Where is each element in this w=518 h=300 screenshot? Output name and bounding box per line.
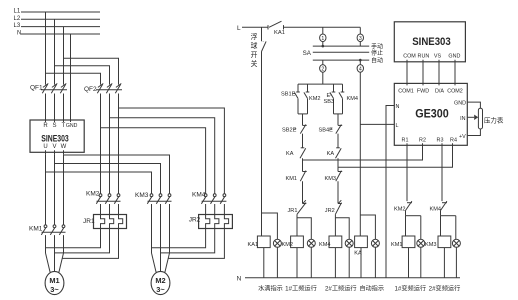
wire auto rail to lamp HL5 (360, 215, 375, 239)
svg-text:COM: COM (403, 53, 416, 59)
svg-text:1: 1 (321, 36, 324, 42)
svg-text:手动: 手动 (371, 43, 383, 51)
svg-text:压力表: 压力表 (484, 116, 504, 125)
contactor aux KM3 (interlock NC) (325, 171, 343, 182)
svg-text:3~: 3~ (50, 285, 59, 294)
svg-text:KM2: KM2 (86, 191, 100, 198)
svg-text:开: 开 (251, 51, 258, 59)
svg-text:2: 2 (321, 67, 324, 73)
wire JR1 out3 to M1 lead3 (62, 229, 118, 259)
wire QF2 pole3 down to KM2 pole3 (118, 95, 120, 194)
wire V branch to KM3 pole2 (55, 164, 161, 194)
wire KA1 coil to N (263, 248, 265, 278)
svg-text:SB1E: SB1E (281, 92, 296, 98)
svg-text:QF2: QF2 (84, 86, 97, 93)
wire COM to COM1 (406, 62, 408, 84)
svg-text:KM1: KM1 (391, 242, 403, 248)
svg-text:KM3: KM3 (325, 176, 337, 182)
wire L2 tap to QF2 pole 2 (55, 66, 110, 85)
svg-text:L: L (396, 123, 399, 129)
wire VS to D/A (438, 62, 440, 84)
wire KM3 coil to N (443, 248, 445, 278)
svg-text:M1: M1 (49, 276, 59, 285)
svg-text:SINE303: SINE303 (412, 36, 451, 48)
wire JR1 to KM2 coil and lamp (297, 214, 311, 239)
inverter U1 SINE303 (power section) (30, 118, 84, 154)
wire lamp HL5 to N (374, 247, 376, 277)
coil KM2 (282, 236, 304, 248)
pushbutton SB4 (stop NC) (319, 114, 343, 134)
coil KA (354, 236, 367, 257)
svg-text:SB3: SB3 (324, 99, 335, 105)
wire U branch to KM3 pole1 (46, 172, 152, 194)
svg-text:KA1: KA1 (248, 242, 259, 248)
wire GE300 L terminal to auto rail (360, 123, 394, 125)
wire GE300 N terminal to N rail (386, 106, 394, 278)
svg-text:SA: SA (303, 50, 312, 57)
thermal relay JR1 (heater elements) (83, 215, 127, 229)
svg-text:1#变频运行: 1#变频运行 (394, 284, 426, 292)
svg-text:+V: +V (459, 134, 466, 140)
contactor KM1 (main contacts) (29, 225, 66, 253)
svg-text:自动: 自动 (371, 57, 383, 65)
inverter control terminals U1 SINE303 (394, 22, 465, 64)
svg-text:SINE303: SINE303 (41, 134, 69, 144)
wire L2 drop to QF1 pole 2 (54, 19, 56, 84)
svg-text:IN: IN (460, 116, 465, 122)
coil KA1 (248, 236, 271, 248)
contactor aux KM2 (seal-in NO) (304, 84, 321, 114)
svg-text:GE300: GE300 (415, 109, 449, 121)
wire KM2 NC to KM1 coil and lamp (406, 216, 421, 240)
svg-text:COM2: COM2 (447, 88, 463, 94)
svg-text:N: N (396, 104, 400, 110)
relay contact KA (NO, left rung) (286, 134, 306, 159)
wire N rail (control) (245, 277, 460, 279)
pushbutton SB1 (start NO) (281, 84, 300, 114)
svg-text:停止: 停止 (371, 49, 383, 57)
svg-text:R: R (43, 123, 48, 129)
svg-text:W: W (61, 144, 67, 150)
svg-text:VS: VS (434, 53, 442, 59)
wire KA to KM3 interlock (337, 158, 339, 171)
contactor aux KM4 (seal-in NO) (339, 84, 358, 114)
wire L3 tap to QF2 pole 3 (64, 58, 119, 84)
wire W branch to KM3 pole3 (64, 155, 170, 194)
svg-text:KA1: KA1 (274, 30, 285, 36)
wire RUN to FWD (422, 62, 424, 84)
wire lamp HL1 to N (276, 247, 278, 277)
contactor aux KM1 (interlock NC) (286, 171, 307, 182)
wire SA-4 auto rail down to KA coil (359, 72, 361, 236)
lamp HL5 (auto indicator) (371, 239, 379, 247)
svg-text:1#工频运行: 1#工频运行 (285, 284, 317, 292)
thermal contact JR1 (NC) (288, 200, 307, 214)
svg-text:水满指示: 水满指示 (258, 284, 283, 292)
wire R4 link to right KA rung (338, 145, 453, 167)
relay contact KA (NO, right rung) (327, 134, 342, 159)
svg-text:2#变频运行: 2#变频运行 (429, 284, 461, 292)
svg-text:浮: 浮 (251, 32, 258, 41)
wire float rail to lamp HL1 (262, 213, 278, 239)
contactor KM4 (main contacts) (192, 192, 226, 215)
svg-text:R4: R4 (450, 137, 457, 143)
wire L2 rail (21, 18, 100, 20)
wire lamp HL2 to N (310, 247, 312, 277)
wire W output down to KM1 pole3 (63, 154, 65, 225)
svg-text:KA: KA (327, 151, 335, 157)
coil KM4 (319, 236, 342, 248)
svg-text:JR2: JR2 (189, 216, 201, 223)
svg-text:GND: GND (448, 53, 460, 59)
wire KM1 coil to N (408, 248, 410, 278)
svg-text:KA: KA (286, 151, 294, 157)
svg-text:R1: R1 (402, 137, 409, 143)
contactor aux KM4 (interlock NC, inverter rung) (430, 201, 448, 216)
svg-text:FWD: FWD (417, 88, 429, 94)
svg-text:KM4: KM4 (319, 242, 331, 248)
pressure sensor (remote gauge) (467, 102, 504, 135)
svg-text:KM1: KM1 (286, 176, 298, 182)
wire R3 down to KM4 interlock (441, 145, 443, 201)
wire KM3 to JR2 contact (337, 181, 339, 203)
wire R1 down to KM2 interlock (406, 145, 408, 201)
coil KM1 (391, 236, 415, 248)
svg-text:GND: GND (454, 100, 466, 106)
svg-text:L: L (237, 25, 241, 32)
wire L to KA1 contact (242, 26, 268, 28)
float switch (vertical text label) (251, 27, 266, 236)
wire KA coil to N (360, 248, 362, 278)
relay contact KA1 (knife) (268, 21, 285, 36)
svg-text:JR1: JR1 (288, 208, 298, 214)
wire R2 link to KA rungs (303, 145, 423, 160)
svg-text:KM1: KM1 (29, 226, 43, 233)
circuit breaker QF2 (84, 84, 122, 96)
svg-text:M2: M2 (155, 276, 165, 285)
svg-text:R2: R2 (419, 137, 426, 143)
wire manual tee (298, 83, 343, 85)
selector switch SA (303, 27, 383, 72)
contactor KM3 (main contacts) (135, 192, 172, 253)
wire KA1 to SA common (284, 26, 361, 28)
thermal relay JR2 (heater elements) (189, 215, 233, 229)
lamp HL6 (1# inverter run) (417, 239, 425, 247)
svg-text:KM4: KM4 (347, 96, 359, 102)
motor M1 (45, 253, 64, 295)
svg-text:D/A: D/A (435, 88, 444, 94)
svg-text:U: U (43, 144, 47, 150)
wire JR2 out2 to M2 lead2 (161, 229, 215, 253)
wire JR2 to KM4 coil and lamp (335, 214, 349, 239)
wire U output down to KM1 pole1 (45, 154, 47, 225)
svg-text:L3: L3 (14, 23, 21, 29)
svg-text:KM2: KM2 (282, 242, 294, 248)
wire lamp HL7 to N (455, 247, 457, 277)
wire JR1 out1 to M1 lead1 (46, 229, 101, 248)
wire SB3/KM4 rejoin (334, 114, 343, 123)
svg-text:COM1: COM1 (398, 88, 414, 94)
svg-text:JR2: JR2 (325, 208, 335, 214)
wire L3 drop to QF1 pole 3 (63, 27, 65, 85)
wire L1 rail (21, 11, 100, 13)
svg-text:KM2: KM2 (309, 96, 321, 102)
wire JR2 out1 to M2 lead1 (152, 229, 206, 248)
wire N rail (power) (21, 33, 100, 35)
wire GND to COM2 (454, 62, 456, 84)
svg-text:KM4: KM4 (192, 192, 206, 199)
lamp HL1 (water-full indicator) (273, 239, 281, 247)
svg-text:3: 3 (359, 36, 362, 42)
wire SB1/KM2 rejoin (298, 114, 308, 123)
svg-text:球: 球 (251, 41, 258, 50)
wire QF2 pole2 branch to KM4 pole2 (110, 118, 215, 194)
wire lamp HL4 to N (348, 247, 350, 277)
lamp HL2 (1# power-freq run) (307, 239, 315, 247)
pushbutton SB2 (stop NC) (282, 114, 307, 134)
svg-text:R3: R3 (437, 137, 444, 143)
svg-text:关: 关 (251, 59, 258, 68)
wire KM1 to JR1 contact (302, 181, 304, 203)
svg-text:V: V (52, 144, 56, 150)
contactor aux KM2 (interlock NC, inverter rung) (394, 201, 412, 216)
wire L1 tap to QF2 pole 1 (46, 73, 101, 84)
svg-text:SB2E: SB2E (282, 128, 297, 134)
svg-text:KM3: KM3 (425, 242, 437, 248)
wire QF2 pole3 branch to KM4 pole3 (119, 108, 225, 194)
svg-text:L1: L1 (14, 9, 21, 15)
wire L3 rail (21, 26, 100, 28)
wire N drop to SINE303 GND terminal (70, 34, 72, 120)
wire L1 drop to QF1 pole 1 (45, 12, 47, 85)
wire KM4 NC to KM3 coil and lamp (441, 216, 456, 240)
svg-text:KM3: KM3 (135, 192, 149, 199)
pushbutton SB3 (start NO) (324, 84, 336, 114)
controller U2 GE300 (394, 81, 467, 147)
wire KA to KM1 interlock (302, 158, 304, 171)
wire V output down to KM1 pole2 (54, 154, 56, 225)
wire KM2 coil to N (296, 248, 298, 278)
svg-text:N: N (237, 275, 242, 282)
wire QF2 pole1 down to KM2 pole1 (100, 95, 102, 194)
wire lamp HL6 to N (420, 247, 422, 277)
wire JR1 out2 to M1 lead2 (55, 229, 110, 253)
svg-text:2#工频运行: 2#工频运行 (325, 284, 357, 292)
svg-text:KM4: KM4 (430, 207, 442, 213)
wire KM4 coil to N (334, 248, 336, 278)
wire QF2 pole1 branch to KM4 pole1 (101, 128, 206, 194)
svg-text:JR1: JR1 (83, 218, 95, 225)
wire QF2 pole2 down to KM2 pole2 (109, 95, 111, 194)
thermal contact JR2 (NC) (325, 200, 342, 214)
wire SA-2 down to manual tee (322, 72, 324, 84)
contactor KM2 (main contacts) (86, 191, 121, 215)
svg-text:S: S (52, 123, 56, 129)
wire JR2 out3 to M2 lead3 (168, 229, 224, 259)
svg-text:GND: GND (66, 123, 78, 129)
svg-text:3~: 3~ (156, 285, 165, 294)
svg-text:RUN: RUN (418, 53, 430, 59)
svg-text:KM2: KM2 (394, 207, 406, 213)
label row (function captions) (258, 284, 460, 292)
svg-text:4: 4 (359, 67, 362, 73)
motor M2 (151, 253, 170, 295)
circuit breaker QF1 (30, 84, 67, 121)
svg-text:QF1: QF1 (30, 85, 43, 92)
svg-text:L2: L2 (14, 16, 21, 22)
coil KM3 (425, 236, 451, 248)
svg-text:N: N (17, 31, 21, 37)
lamp HL4 (2# power-freq run) (345, 239, 353, 247)
svg-text:自动指示: 自动指示 (359, 284, 384, 292)
lamp HL7 (2# inverter run) (452, 239, 460, 247)
